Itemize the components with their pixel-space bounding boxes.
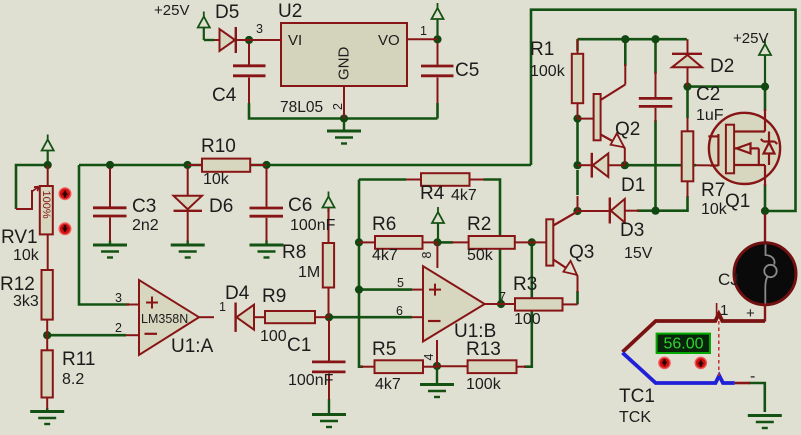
svg-text:Q3: Q3 xyxy=(569,242,594,263)
transistor Q2 xyxy=(578,64,626,165)
capacitor C5 xyxy=(421,43,454,103)
svg-text:100: 100 xyxy=(260,328,287,345)
wire C4 bottom green and bottom rail xyxy=(249,103,438,119)
resistor R13 xyxy=(437,360,526,373)
node D2 anode / R7 top xyxy=(683,83,691,91)
node C1/R9/R8/pin6 xyxy=(325,313,333,321)
svg-text:D1: D1 xyxy=(621,175,645,196)
svg-text:+: + xyxy=(746,305,755,322)
svg-text:1M: 1M xyxy=(298,264,320,281)
svg-text:-: - xyxy=(750,368,755,385)
power arrow above RV1 xyxy=(42,135,54,163)
power arrow above C5 node xyxy=(432,3,444,36)
resistor R5 xyxy=(361,360,437,373)
power +25V arrow right xyxy=(759,39,771,84)
node D1 right / Q2 emitter xyxy=(621,161,629,169)
wire R7 bottom to cap node xyxy=(656,196,688,211)
svg-text:Q2: Q2 xyxy=(615,119,640,140)
opamp U1:B xyxy=(412,242,501,366)
capacitor C1 xyxy=(312,320,346,400)
resistor R7 xyxy=(682,118,694,197)
ground C1 xyxy=(312,399,346,427)
wire top rail Q2 collector row y=39.2 xyxy=(578,38,687,41)
svg-text:15V: 15V xyxy=(624,245,653,262)
svg-text:C2: C2 xyxy=(696,84,720,105)
capacitor C4 xyxy=(233,44,266,104)
svg-text:4k7: 4k7 xyxy=(372,247,398,264)
TC1 display 56.00 xyxy=(657,334,710,353)
svg-text:R13: R13 xyxy=(466,339,501,360)
node Q1 source / lamp xyxy=(761,207,769,215)
svg-text:3: 3 xyxy=(256,22,263,36)
svg-text:R2: R2 xyxy=(467,214,491,235)
diode D1 xyxy=(578,153,625,178)
svg-text:R1: R1 xyxy=(530,39,554,60)
RV1 down button xyxy=(59,223,71,235)
svg-text:RV1: RV1 xyxy=(1,227,38,248)
capacitor C3 xyxy=(93,168,127,241)
zener D3 xyxy=(578,198,640,224)
mosfet Q1 xyxy=(696,109,780,186)
svg-text:100%: 100% xyxy=(40,191,52,219)
node R6 left xyxy=(355,238,363,246)
wire left feedback column x=359 xyxy=(359,180,363,367)
ground D6 xyxy=(171,241,205,258)
node Q3 base xyxy=(528,238,536,246)
wire R7 top green xyxy=(686,87,689,118)
node +25V / Q1 drain xyxy=(761,83,769,91)
svg-text:U1:A: U1:A xyxy=(171,336,214,357)
node rail y39 Q2 collector xyxy=(621,35,629,43)
TC1 up button xyxy=(695,357,706,368)
wire rail B +25V row y=86.6 xyxy=(687,85,765,88)
node RV1 top xyxy=(44,161,52,169)
svg-text:3: 3 xyxy=(115,291,122,305)
svg-text:D2: D2 xyxy=(710,56,734,77)
svg-text:R6: R6 xyxy=(372,214,396,235)
capacitor C2 xyxy=(639,72,673,122)
RV1 up button xyxy=(59,188,71,200)
wire pin5 row xyxy=(359,288,412,291)
svg-text:R7: R7 xyxy=(701,180,725,201)
resistor R9 xyxy=(265,311,329,323)
resistor R8 xyxy=(323,208,334,317)
node D3 left / Q3 collector xyxy=(573,207,581,215)
wire U1:A out row handled red; wire C1 node to U1:B pin6 xyxy=(329,316,412,319)
node V+ pin8 arrow xyxy=(433,238,441,246)
svg-text:R4: R4 xyxy=(420,183,445,204)
svg-text:2: 2 xyxy=(115,321,122,335)
node D3/C2/R7 bottom xyxy=(651,207,659,215)
diode D6 xyxy=(174,168,203,241)
TC1 down button xyxy=(659,357,670,368)
svg-text:10k: 10k xyxy=(203,171,230,188)
node U2 VO/C5 xyxy=(433,35,441,43)
svg-text:R3: R3 xyxy=(513,274,537,295)
wire pin2 row from R12/R11 node xyxy=(47,334,126,337)
svg-text:78L05: 78L05 xyxy=(280,99,323,116)
diode D4 xyxy=(236,303,265,332)
wire Q1 drain green xyxy=(764,87,767,111)
node bus C3 xyxy=(106,161,114,169)
node pin5 xyxy=(355,286,363,294)
svg-text:100nF: 100nF xyxy=(290,217,336,234)
svg-text:C3: C3 xyxy=(132,196,156,217)
node bus R10/D6 xyxy=(183,161,191,169)
resistor R4 xyxy=(406,173,484,186)
svg-text:TC1: TC1 xyxy=(619,386,655,407)
svg-text:+25V: +25V xyxy=(733,30,768,47)
svg-text:1: 1 xyxy=(420,24,427,38)
svg-text:100k: 100k xyxy=(530,63,566,80)
svg-text:10k: 10k xyxy=(13,247,40,264)
wire R1 top xyxy=(576,39,579,51)
svg-text:100nF: 100nF xyxy=(288,372,334,389)
node D5/C4/U2 VI xyxy=(245,36,253,44)
diode D5 xyxy=(214,27,249,53)
transistor Q3 xyxy=(546,196,577,292)
wire C2 column bottom green crossing gate row xyxy=(654,120,657,211)
potentiometer RV1 xyxy=(16,165,53,270)
svg-text:C4: C4 xyxy=(212,85,237,106)
wire Q2 collector up green part xyxy=(624,39,627,66)
svg-text:4k7: 4k7 xyxy=(451,187,477,204)
svg-text:2n2: 2n2 xyxy=(132,217,159,234)
wire D1 node to Q3 collector green part xyxy=(576,170,579,195)
wire TC minus to ground xyxy=(749,383,765,412)
svg-text:R5: R5 xyxy=(372,339,396,360)
wire R4 top left xyxy=(359,178,406,181)
ground C3 xyxy=(93,241,127,258)
svg-text:1: 1 xyxy=(720,302,728,319)
wire R2 left green part xyxy=(437,241,453,244)
svg-text:C6: C6 xyxy=(288,195,312,216)
wire R4 right down to output node xyxy=(484,180,501,305)
svg-text:R8: R8 xyxy=(282,242,306,263)
svg-text:5: 5 xyxy=(397,276,404,290)
svg-text:4k7: 4k7 xyxy=(375,376,401,393)
resistor R12 xyxy=(42,270,53,335)
svg-text:8.2: 8.2 xyxy=(62,371,84,388)
svg-text:50k: 50k xyxy=(467,247,494,264)
resistor R11 xyxy=(42,335,53,408)
svg-text:C5: C5 xyxy=(455,60,479,81)
wire Q1 source green to lamp node xyxy=(764,184,767,211)
ground C6 xyxy=(250,241,284,258)
node rail y39 C2 top xyxy=(651,35,659,43)
svg-text:+25V: +25V xyxy=(154,2,189,19)
wire C5 bottom green xyxy=(436,103,439,119)
svg-text:D3: D3 xyxy=(620,220,644,241)
svg-text:100: 100 xyxy=(514,311,541,328)
svg-text:D5: D5 xyxy=(215,2,239,23)
svg-text:VI: VI xyxy=(288,32,302,49)
power +25V arrow left (D5) xyxy=(198,12,214,41)
ground TC1 xyxy=(748,416,782,429)
node U2 GND/bottom rail xyxy=(340,114,348,122)
resistor R6 xyxy=(359,236,437,249)
svg-text:TCK: TCK xyxy=(619,409,651,426)
thermocouple TC1 hot junction lines xyxy=(623,303,766,383)
resistor R3 xyxy=(501,298,578,310)
wire RV1 wiper loop green part xyxy=(16,165,48,209)
svg-text:U2: U2 xyxy=(278,1,302,22)
capacitor C6 xyxy=(250,168,284,241)
svg-text:LM358N: LM358N xyxy=(141,312,188,326)
power arrow above R8 xyxy=(323,192,335,213)
svg-text:3k3: 3k3 xyxy=(13,293,39,310)
power arrow U1:B V+ pin8 xyxy=(432,207,444,240)
svg-text:R12: R12 xyxy=(0,274,35,295)
diode D2 xyxy=(672,39,702,86)
wire Q3 base node down to R13 right (passes behind R3) xyxy=(524,242,532,366)
resistor R10 xyxy=(188,159,267,172)
node D1 left xyxy=(573,161,581,169)
opamp U1:A xyxy=(126,280,214,355)
node R1 bottom / Q2 base xyxy=(573,115,581,123)
svg-text:D6: D6 xyxy=(209,196,233,217)
svg-text:6: 6 xyxy=(396,304,403,318)
svg-text:D4: D4 xyxy=(225,283,250,304)
node bus R10/C6 xyxy=(262,161,270,169)
svg-text:R11: R11 xyxy=(62,349,95,370)
svg-text:C1: C1 xyxy=(287,335,311,356)
resistor R2 xyxy=(452,236,546,249)
svg-text:8: 8 xyxy=(420,252,434,259)
wire main bus y=165 xyxy=(79,164,531,167)
svg-text:VO: VO xyxy=(378,32,400,49)
svg-text:R9: R9 xyxy=(262,286,286,307)
wire RV1 top to U1:A pin3 branch xyxy=(79,165,129,305)
svg-text:100k: 100k xyxy=(466,376,502,393)
svg-text:1uF: 1uF xyxy=(696,107,724,124)
svg-text:CJ: CJ xyxy=(718,270,739,289)
regulator U2 78L05 xyxy=(249,23,438,119)
resistor R1 xyxy=(572,39,583,118)
svg-text:GND: GND xyxy=(336,47,353,81)
ground U1:B pin4 xyxy=(420,368,454,397)
lamp CJ heater xyxy=(734,214,796,322)
svg-text:4: 4 xyxy=(422,354,436,361)
wire D3 right to cap node xyxy=(637,209,656,212)
wire R1 bottom node down to D1 node xyxy=(576,119,579,166)
wire C2 column top green xyxy=(654,39,657,74)
node R12/R11 pin2 xyxy=(43,331,51,339)
node U1:B output xyxy=(497,300,505,308)
svg-text:R10: R10 xyxy=(201,136,236,157)
svg-text:2: 2 xyxy=(331,103,345,110)
svg-text:56.00: 56.00 xyxy=(663,336,703,353)
svg-text:10k: 10k xyxy=(701,201,728,218)
wire Q3 emitter to R3 green part xyxy=(576,291,579,304)
node pin4 ground xyxy=(433,362,441,370)
svg-text:7: 7 xyxy=(499,290,506,304)
ground U2 pin2 xyxy=(327,121,361,144)
wire bus up loop to top rail and down right edge to source node xyxy=(531,10,796,211)
svg-text:Q1: Q1 xyxy=(725,191,750,212)
ground R11 xyxy=(30,408,64,424)
wire gate row from D1 node to R7 (passes behind R7 body) xyxy=(625,164,696,167)
